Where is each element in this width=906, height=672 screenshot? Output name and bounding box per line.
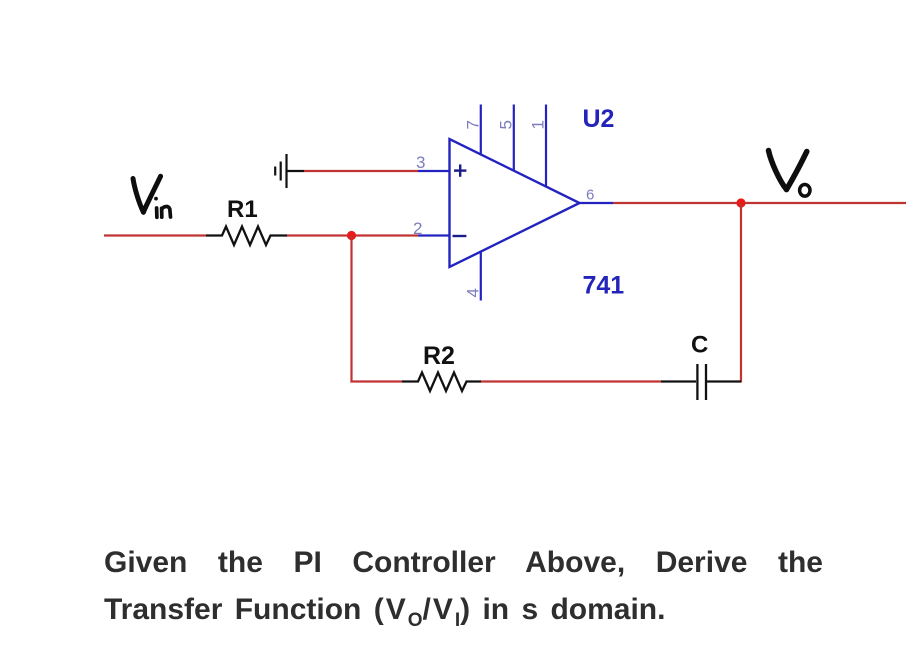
svg-text:6: 6 <box>586 187 594 204</box>
pin 3 lead <box>418 170 450 172</box>
label Vin handwritten <box>133 176 171 217</box>
pin 2 lead <box>418 234 450 236</box>
wire node B down <box>740 203 742 383</box>
wire node A down <box>350 236 352 383</box>
svg-text:1: 1 <box>529 120 548 129</box>
wire R1 to node A <box>287 234 418 236</box>
wire output <box>613 202 906 204</box>
wire R2 to C <box>481 380 661 382</box>
svg-text:5: 5 <box>497 120 516 129</box>
svg-text:4: 4 <box>464 288 483 297</box>
ground <box>275 154 304 188</box>
plus symbol <box>454 164 466 176</box>
svg-text:3: 3 <box>416 153 425 172</box>
op-amp U2 triangle <box>450 139 580 267</box>
wire feedback bottom left <box>350 380 402 382</box>
node B junction dot <box>736 198 745 207</box>
pin 4 line <box>480 252 482 301</box>
svg-text:C: C <box>691 332 708 359</box>
svg-text:741: 741 <box>583 272 625 300</box>
label Vo handwritten <box>769 151 811 197</box>
svg-text:R1: R1 <box>227 196 258 223</box>
pin 5 line <box>513 105 515 171</box>
minus symbol <box>453 235 467 237</box>
question text <box>104 539 823 633</box>
wire ground to pin 3 <box>304 170 418 172</box>
svg-text:7: 7 <box>464 120 483 129</box>
svg-text:U2: U2 <box>583 105 615 133</box>
resistor R2 <box>402 373 481 392</box>
node A junction dot <box>347 231 356 240</box>
wire Vin input left <box>104 234 206 236</box>
svg-text:R2: R2 <box>423 342 455 370</box>
svg-text:2: 2 <box>413 219 422 238</box>
resistor R1 <box>206 227 287 246</box>
pin 7 line <box>480 105 482 155</box>
pin 1 line <box>545 105 547 187</box>
pin 6 lead <box>580 202 614 204</box>
capacitor C <box>661 364 741 400</box>
